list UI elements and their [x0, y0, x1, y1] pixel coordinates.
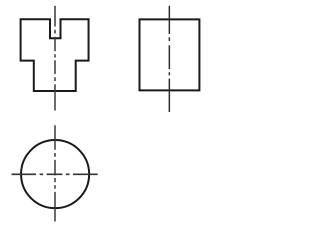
side view vertical centerline	[168, 6, 170, 112]
top view circle	[21, 140, 89, 208]
top view vertical centerline	[54, 125, 56, 221]
side view rectangle	[140, 19, 200, 90]
top view horizontal centerline	[12, 173, 98, 175]
front view outline (slotted T-profile)	[21, 19, 89, 91]
front view vertical centerline	[54, 6, 56, 111]
